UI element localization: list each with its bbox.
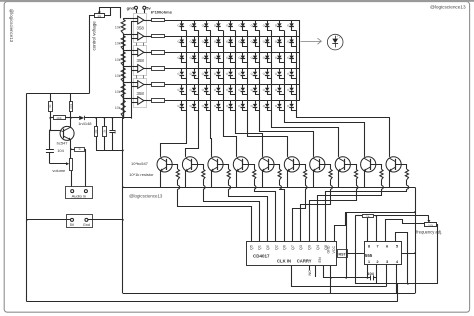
LED D16: [242, 36, 244, 39]
svg-text:Q0: Q0: [266, 245, 270, 250]
wire column 5 to collector Q6: [236, 112, 263, 157]
transistor Q1 bc547: [60, 126, 74, 140]
wire emitter Q2: [160, 171, 162, 188]
wire base Q10 to CD4017 pin: [318, 189, 382, 241]
svg-text:gnd: gnd: [127, 5, 135, 10]
resistor 1k base R24: [253, 169, 256, 179]
LED D18: [267, 36, 269, 39]
wire base resistor down Q8: [330, 180, 332, 186]
wire LED row 3: [165, 52, 300, 54]
svg-text:CD4017: CD4017: [253, 253, 270, 258]
wire emitter Q10: [364, 171, 366, 188]
resistor 100ohm row 1: [152, 19, 165, 22]
wire cathode D23: [207, 59, 211, 63]
wire column bus 7: [259, 30, 261, 112]
LED D7: [255, 20, 257, 23]
wire bus riser: [397, 284, 399, 302]
resistor 1k base R22: [202, 169, 205, 179]
wire cathode D18: [268, 43, 272, 47]
wire cathode D30: [292, 59, 297, 63]
svg-text:volume: volume: [52, 168, 66, 173]
wire cathode D24: [219, 59, 224, 63]
LED D42: [194, 85, 196, 88]
wire pot right down: [436, 225, 439, 284]
resistor 1k base R28: [354, 169, 357, 179]
wire cathode D21: [182, 59, 187, 63]
LED D4: [218, 20, 220, 23]
svg-text:CLK IN: CLK IN: [277, 259, 291, 264]
wire base resistor down Q2: [177, 180, 179, 186]
transistor Q6 bc547: [259, 157, 274, 172]
resistor R14 1k: [70, 148, 72, 150]
wire inverting input row 2: [131, 38, 138, 40]
LED D35: [230, 68, 232, 71]
wire pot right terminal: [104, 8, 111, 16]
op-amp A6: [138, 97, 144, 105]
wire cathode D12: [195, 43, 199, 47]
wire cathode D6: [243, 27, 248, 31]
wire matrix right vertical: [299, 20, 301, 101]
LED D60: [291, 101, 293, 104]
transistor Q7 bc547: [284, 157, 299, 172]
resistor 1k base R29: [380, 169, 383, 179]
svg-text:10k: 10k: [115, 42, 121, 46]
wire pot left terminal down: [90, 16, 95, 94]
wire cathode D33: [207, 75, 211, 79]
wire pin1 and capacitor 104: [367, 264, 369, 278]
resistor 100ohm row 4: [152, 67, 165, 71]
wire cathode D40: [292, 75, 297, 79]
transistor Q5 bc547: [233, 157, 248, 172]
svg-text:358: 358: [137, 26, 145, 31]
LED D47: [255, 85, 257, 88]
resistor 100ohm row 3: [152, 51, 165, 55]
resistor 100ohm row 6: [152, 99, 165, 103]
op-amp A1: [138, 16, 144, 24]
wire emitter Q9: [338, 171, 340, 188]
wire emitter Q11: [389, 171, 391, 188]
svg-text:Q5: Q5: [249, 245, 253, 250]
wire column 3 to collector Q4: [211, 112, 212, 157]
svg-text:@logicscience13: @logicscience13: [430, 4, 466, 9]
wire cathode D60: [292, 107, 297, 110]
wire base Q4 to CD4017 pin: [229, 189, 268, 241]
wire top rail: [27, 93, 90, 95]
op-amp A4: [138, 65, 144, 73]
wire pin8: [367, 218, 369, 242]
wire cathode D54: [219, 107, 224, 110]
wire cathode D29: [280, 59, 285, 63]
wire signal bus down: [122, 118, 124, 294]
wire LED row 6: [165, 100, 300, 102]
wire non-inverting input row 5: [123, 82, 138, 84]
svg-text:bc547: bc547: [57, 140, 69, 145]
LED D40: [291, 68, 293, 71]
wire op-amp output row 4: [144, 68, 152, 70]
wire cathode D55: [231, 107, 236, 110]
LED D36: [242, 68, 244, 71]
wire cathode D27: [256, 59, 260, 63]
wire cathode D11: [182, 43, 187, 47]
wire package power chain: [136, 43, 138, 46]
terminal Audio in: [66, 187, 93, 199]
wire op-amp output row 6: [144, 100, 152, 102]
LED D56: [242, 101, 244, 104]
svg-text:358: 358: [137, 91, 145, 96]
wire column bus 3: [210, 30, 212, 112]
wire callout arrow: [301, 41, 322, 43]
svg-text:10k: 10k: [115, 90, 121, 94]
wire inverting input row 1: [131, 21, 138, 23]
LED D8: [267, 20, 269, 23]
wire cathode D14: [219, 43, 224, 47]
wire cathode D10: [292, 27, 297, 31]
wire cathode D26: [243, 59, 248, 63]
potentiometer volume: [70, 159, 73, 171]
wire pin4: [396, 264, 398, 293]
wire pin7: [376, 216, 378, 242]
LED D55: [230, 101, 232, 104]
wire cathode D59: [280, 107, 285, 110]
svg-text:104: 104: [367, 271, 374, 276]
wire base resistor down Q11: [406, 180, 408, 186]
resistor R16: [104, 118, 106, 127]
wire 5V from left bus: [27, 219, 71, 221]
wire bottom 555 rail: [355, 283, 438, 285]
wire cathode D7: [256, 27, 260, 31]
wire column bus 2: [198, 30, 200, 112]
LED D45: [230, 85, 232, 88]
wire column 4 to collector Q5: [224, 112, 237, 157]
LED D59: [279, 101, 281, 104]
wire LED row 5: [165, 84, 300, 86]
resistor R31 10k: [355, 215, 362, 217]
wire column bus 1: [186, 30, 188, 112]
wire column bus 4: [223, 30, 225, 112]
wire left 555 vertical: [355, 216, 357, 284]
wire cathode D46: [243, 91, 248, 94]
transistor Q8 bc547: [310, 157, 325, 172]
op-amp A3: [138, 48, 144, 56]
wire diode output node: [84, 117, 131, 119]
wire column 1 to collector Q2: [161, 112, 187, 157]
svg-text:Q2: Q2: [274, 245, 278, 250]
wire emitter Q6: [262, 171, 264, 188]
LED D31: [181, 68, 183, 71]
IC 555: [365, 242, 402, 265]
wire column 10 to collector Q11: [297, 112, 390, 157]
wire base Q4: [217, 165, 228, 170]
wire base resistor down Q7: [305, 180, 307, 186]
wire base Q9: [345, 165, 357, 170]
wire op-amp output row 3: [144, 52, 152, 54]
svg-text:RST: RST: [339, 252, 347, 256]
callout LED detail: [327, 34, 343, 50]
wire base Q8: [319, 165, 330, 170]
LED D20: [291, 36, 293, 39]
svg-text:control voltage: control voltage: [91, 21, 96, 51]
resistor ladder 10k R1: [123, 18, 125, 19]
wire base resistor down Q4: [228, 180, 230, 186]
svg-text:104: 104: [57, 148, 64, 153]
wire non-inverting input row 6: [123, 98, 138, 100]
LED D41: [181, 85, 183, 88]
LED D25: [230, 52, 232, 55]
LED D12: [194, 36, 196, 39]
LED D48: [267, 85, 269, 88]
wire pin3 to CLK: [386, 264, 388, 286]
wire cathode D58: [268, 107, 272, 110]
op-amp A5: [138, 81, 144, 89]
wire cathode D50: [292, 91, 297, 94]
LED D6: [242, 20, 244, 23]
LED D51: [181, 101, 183, 104]
wire base Q10: [370, 165, 382, 170]
wire column 9 to collector Q10: [285, 112, 365, 157]
LED D29: [279, 52, 281, 55]
wire cathode D19: [280, 43, 285, 47]
wire cathode D38: [268, 75, 272, 79]
transistor Q3 bc547: [182, 157, 197, 172]
wire column bus 10: [296, 30, 298, 112]
op-amp package LM358 U3: [134, 79, 147, 108]
LED D44: [218, 85, 220, 88]
svg-text:10k: 10k: [115, 74, 121, 78]
LED D17: [255, 36, 257, 39]
wire NC stub: [315, 265, 317, 277]
wire node to inverting bus: [131, 117, 133, 120]
LED D57: [255, 101, 257, 104]
LED D54: [218, 101, 220, 104]
wire base Q2: [166, 165, 177, 170]
wire cathode D48: [268, 91, 272, 94]
wire cap to volume wiper: [50, 163, 66, 165]
wire ground return bus: [123, 293, 415, 295]
wire base Q5 to CD4017 pin: [255, 189, 276, 241]
wire RST loop top: [346, 212, 415, 214]
wire base resistor down Q10: [381, 180, 383, 186]
wire cathode D9: [280, 27, 285, 31]
wire inverting input row 6: [131, 102, 138, 104]
wire volume to audio-in: [71, 171, 73, 190]
potentiometer control voltage: [95, 14, 105, 18]
resistor ladder 10k R5: [123, 83, 125, 84]
wire base Q7: [294, 165, 306, 170]
wire base resistor down Q9: [356, 180, 358, 186]
LED D53: [206, 101, 208, 104]
LED D3: [206, 20, 208, 23]
LED D15: [230, 36, 232, 39]
wire base Q3 to CD4017 pin: [204, 189, 260, 241]
LED D22: [194, 52, 196, 55]
wire emitter ground bus: [123, 187, 415, 189]
svg-text:@logicscience13: @logicscience13: [9, 9, 14, 43]
wire op-amp output row 1: [144, 20, 152, 22]
wire non-inverting input row 1: [123, 18, 138, 20]
resistor 1k base R27: [329, 169, 332, 179]
wire inverting input row 4: [131, 70, 138, 72]
LED D43: [206, 85, 208, 88]
wire emitter Q5: [236, 171, 238, 188]
transistor Q11 bc547: [386, 157, 401, 172]
wire cathode D47: [256, 91, 260, 94]
svg-text:Q3: Q3: [299, 245, 303, 250]
LED D13: [206, 36, 208, 39]
resistor R12: [70, 93, 72, 101]
wire VCC tie vertical: [346, 212, 348, 278]
wire CLK IN: [292, 265, 387, 286]
LED D10: [291, 20, 293, 23]
resistor R11: [50, 93, 52, 101]
wire cathode D56: [243, 107, 248, 110]
wire pin6 to pot left: [386, 220, 425, 242]
wire column bus 8: [271, 30, 273, 112]
LED D14: [218, 36, 220, 39]
wire base Q2 to CD4017 pin: [178, 189, 252, 241]
LED D19: [279, 36, 281, 39]
capacitor C2: [112, 118, 114, 130]
svg-text:100k: 100k: [56, 117, 62, 120]
svg-text:1n4148: 1n4148: [78, 121, 92, 126]
wire cathode D2: [195, 27, 199, 31]
LED D24: [218, 52, 220, 55]
svg-text:10k: 10k: [115, 106, 121, 110]
wire base Q5: [243, 165, 255, 170]
svg-text:Gnd: Gnd: [83, 223, 90, 227]
wire cathode D57: [256, 107, 260, 110]
wire base Q7 to CD4017 pin: [293, 189, 306, 241]
resistor ladder 10k R6: [123, 99, 125, 100]
wire emitter Q4: [211, 171, 213, 188]
resistor 1k base R23: [227, 169, 230, 179]
wire base Q8 to CD4017 pin: [301, 189, 331, 241]
LED D5: [230, 20, 232, 23]
LED D33: [206, 68, 208, 71]
wire bottom rail of filter: [96, 150, 123, 152]
wire base Q6: [268, 165, 279, 170]
wire Gnd to signal bus: [88, 219, 123, 221]
transistor Q10 bc547: [361, 157, 376, 172]
svg-text:100k: 100k: [428, 225, 434, 227]
wire column 7 to collector Q8: [260, 112, 314, 157]
wire cathode D31: [182, 75, 187, 79]
svg-text:Q7: Q7: [291, 245, 295, 250]
wire cathode D44: [219, 91, 224, 94]
resistor 100ohm row 2: [152, 35, 165, 38]
op-amp package LM358 U1: [134, 14, 147, 43]
svg-text:CARRY: CARRY: [297, 259, 312, 264]
wire column bus 6: [247, 30, 249, 112]
svg-text:358: 358: [137, 58, 145, 63]
wire cathode D28: [268, 59, 272, 63]
wire cathode D34: [219, 75, 224, 79]
wire cathode D25: [231, 59, 236, 63]
wire cathode D35: [231, 75, 236, 79]
wire base resistor down Q3: [203, 180, 205, 186]
wire emitter Q8: [313, 171, 315, 188]
svg-text:NC: NC: [308, 270, 312, 276]
wire emitter Q7: [287, 171, 289, 188]
wire column bus 9: [284, 30, 286, 112]
wire base resistor down Q6: [279, 180, 281, 186]
wire cathode D15: [231, 43, 236, 47]
resistor ladder 10k R4: [123, 67, 125, 68]
wire cathode D3: [207, 27, 211, 31]
wire cathode D20: [292, 43, 297, 47]
wire LED row 1: [165, 20, 300, 22]
wire cathode D32: [195, 75, 199, 79]
resistor 100ohm row 5: [152, 83, 165, 87]
wire cathode D41: [182, 91, 187, 94]
wire VCC pin riser: [335, 212, 346, 241]
wire cathode D22: [195, 59, 199, 63]
LED D27: [255, 52, 257, 55]
resistor 1k base R30: [405, 169, 408, 179]
transistor Q2 bc547: [157, 157, 172, 172]
wire pot wiper to ladder top: [100, 8, 121, 19]
wire column 6 to collector Q7: [248, 112, 288, 157]
LED D11: [181, 36, 183, 39]
resistor 1k base R21: [176, 169, 179, 179]
LED D37: [255, 68, 257, 71]
terminal 5V Gnd: [67, 215, 93, 228]
transistor Q9 bc547: [335, 157, 350, 172]
transistor Q4 bc547: [208, 157, 223, 172]
wire column bus 5: [235, 30, 237, 112]
LED D39: [279, 68, 281, 71]
wire emitter Q3: [185, 171, 187, 188]
wire cathode D49: [280, 91, 285, 94]
wire base Q3: [192, 165, 204, 170]
svg-text:GND: GND: [327, 245, 331, 253]
wire cathode D36: [243, 75, 248, 79]
wire emitter to volume pot: [70, 140, 72, 159]
wire cathode D17: [256, 43, 260, 47]
LED D32: [194, 68, 196, 71]
svg-text:555: 555: [365, 253, 373, 258]
wire cathode D16: [243, 43, 248, 47]
wire collector: [70, 118, 72, 127]
wire GND down: [330, 265, 332, 293]
wire pin2: [376, 264, 378, 284]
wire op-amp output row 2: [144, 36, 152, 38]
wire non-inverting input row 4: [123, 66, 138, 68]
wire base Q6 to CD4017 pin: [280, 189, 285, 241]
wire cathode D5: [231, 27, 236, 31]
resistor 1k base R26: [304, 169, 307, 179]
LED D49: [279, 85, 281, 88]
svg-text:Audio in: Audio in: [72, 193, 86, 198]
LED D30: [291, 52, 293, 55]
LED D28: [267, 52, 269, 55]
svg-text:10*bc547: 10*bc547: [131, 161, 149, 166]
resistor R15: [96, 118, 98, 127]
wire to audio-in right: [85, 149, 87, 189]
wire cathode D1: [182, 27, 187, 31]
wire pin5 loop: [396, 233, 408, 284]
wire cathode D8: [268, 27, 272, 31]
LED D34: [218, 68, 220, 71]
svg-text:frequency adj.: frequency adj.: [416, 230, 442, 235]
wire inverting input row 3: [131, 54, 138, 56]
wire cathode D52: [195, 107, 199, 110]
wire LED row 2: [165, 36, 300, 38]
op-amp package LM358 U2: [134, 46, 147, 76]
terminal 5v: [143, 6, 146, 9]
wire cathode D42: [195, 91, 199, 94]
wire right loop vertical: [415, 187, 417, 293]
op-amp A2: [138, 32, 144, 40]
